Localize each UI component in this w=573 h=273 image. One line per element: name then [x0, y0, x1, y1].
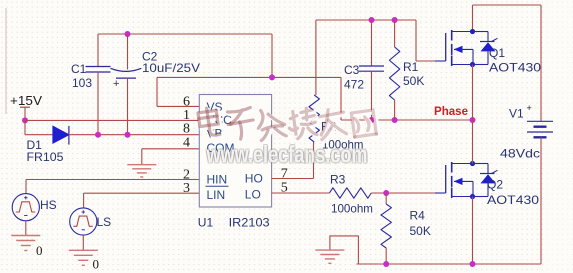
ground COM [127, 165, 156, 177]
svg-text:U1: U1 [198, 216, 214, 230]
svg-text:Phase: Phase [434, 104, 468, 118]
svg-text:48Vdc: 48Vdc [500, 147, 540, 161]
wire top rail [98, 33, 272, 35]
wire R1 bottom lead [394, 100, 396, 120]
svg-text:C1: C1 [71, 62, 87, 76]
resistor R4 [381, 204, 391, 248]
junction C3 top [369, 17, 375, 23]
svg-text:V1: V1 [509, 107, 524, 121]
wire gate drop [415, 20, 417, 61]
wire pin 7 HO [272, 178, 314, 180]
wire R4 bottom lead [385, 248, 387, 264]
svg-text:+: + [527, 103, 532, 113]
wire R2 top lead [315, 20, 317, 95]
junction R4 bottom [383, 261, 389, 267]
wire down to VS line [271, 34, 273, 77]
svg-text:www.elecfans.com: www.elecfans.com [206, 141, 368, 168]
wire pin 2 HIN [26, 179, 199, 181]
wire C2 top lead [127, 34, 129, 70]
svg-text:+: + [113, 78, 119, 90]
svg-text:AOT430: AOT430 [489, 61, 541, 75]
wire down to LS [83, 193, 85, 208]
wire R1 top lead [394, 20, 396, 47]
svg-text:100ohm: 100ohm [331, 202, 373, 216]
svg-text:HIN: HIN [207, 173, 228, 187]
transistor Q2 AOT430 symbol [435, 161, 498, 199]
wire R4 top lead [385, 193, 387, 204]
junction C2 top [125, 31, 131, 37]
wire R3 to Q2 gate [371, 192, 435, 194]
wire Phase line [341, 119, 473, 121]
wire LS to ground [82, 235, 84, 250]
wire Q2 source down [472, 197, 474, 265]
junction C2 bottom [125, 132, 131, 138]
wire to Q1 gate [416, 60, 435, 62]
wire C1 top lead [97, 34, 99, 67]
wire COM ground stub [141, 149, 143, 165]
resistor R2 [309, 95, 319, 142]
power bar +15V [20, 106, 30, 108]
pin name LIN (with overbar) [206, 185, 229, 187]
wire D1 anode lead [25, 134, 53, 136]
wire pin 1 VCC line [25, 119, 199, 121]
wire VS riser [156, 77, 158, 106]
svg-text:LO: LO [245, 188, 261, 202]
wire bottom rail [357, 263, 542, 265]
svg-text:LS: LS [97, 215, 112, 229]
junction R1 top [392, 17, 398, 23]
pulse source HS [12, 194, 39, 221]
wire down to D1 anode [24, 120, 26, 134]
svg-text:HS: HS [40, 198, 57, 212]
wire pin 3 LIN [84, 192, 199, 194]
wire pin 6 stub [157, 105, 199, 107]
wire VS down to Phase [340, 77, 342, 120]
wire ground branch [330, 236, 359, 264]
wire Phase to Q2 drain [472, 120, 474, 164]
wire rail B (gate route) [316, 19, 416, 21]
op-amp U1 IR2103 (driver IC) [199, 95, 271, 208]
svg-text:8: 8 [183, 122, 190, 137]
resistor R1 [389, 47, 399, 100]
resistor R3 [329, 188, 371, 198]
junction R1 bottom on Phase [392, 117, 398, 123]
svg-text:C3: C3 [344, 63, 360, 77]
svg-text:50K: 50K [403, 74, 424, 88]
battery V1 48Vdc [527, 121, 553, 137]
svg-text:10uF/25V: 10uF/25V [142, 61, 200, 75]
ground power [315, 250, 344, 263]
svg-text:IR2103: IR2103 [229, 216, 270, 230]
wire battery top [540, 5, 542, 121]
wire C3 bottom lead [371, 71, 373, 120]
wire pin 4 COM [142, 148, 199, 150]
node Phase [470, 117, 476, 123]
wire battery bottom [540, 137, 542, 264]
watermark chinese characters (decorative) [198, 107, 378, 143]
capacitor C2 [111, 68, 142, 90]
wire pin 5 LO [272, 192, 330, 194]
svg-text:0: 0 [36, 243, 43, 258]
svg-text:3: 3 [183, 181, 190, 196]
svg-text:0: 0 [93, 257, 100, 272]
ground LS 0 [69, 250, 98, 265]
wire +15V stub [24, 107, 26, 120]
wire down to HS [25, 180, 27, 194]
transistor Q1 AOT430 symbol [435, 29, 498, 67]
svg-text:Q2: Q2 [487, 178, 503, 192]
svg-text:R1: R1 [403, 60, 419, 74]
pulse source LS [70, 208, 97, 235]
wire C1 bottom lead [97, 72, 99, 135]
wire R2 bottom lead [313, 142, 315, 179]
svg-text:103: 103 [72, 76, 92, 90]
wire pin 8 VB line [69, 134, 199, 136]
wire Q1 source to Phase [472, 65, 474, 121]
svg-text:FR105: FR105 [27, 150, 64, 164]
ground HS 0 [11, 236, 40, 251]
wire HS to ground [25, 221, 27, 236]
svg-text:472: 472 [344, 78, 364, 92]
capacitor C1 [86, 67, 111, 73]
wire drain rail top [473, 4, 542, 6]
junction Q2 source on rail [470, 261, 476, 267]
wire C3 top lead [371, 20, 373, 66]
junction VS/rail [269, 74, 275, 80]
svg-text:LIN: LIN [207, 188, 226, 202]
junction +15V/VCC [22, 117, 28, 123]
svg-text:Q1: Q1 [489, 46, 505, 60]
svg-text:R4: R4 [410, 209, 426, 223]
svg-text:HO: HO [245, 172, 263, 186]
svg-text:AOT430: AOT430 [487, 193, 539, 207]
junction R4 top [383, 190, 389, 196]
watermark www.elecfans.com (decorative) [205, 140, 369, 169]
svg-text:50K: 50K [410, 224, 431, 238]
junction C1 bottom [95, 132, 101, 138]
junction C3 bottom on Phase [369, 117, 375, 123]
wire VS horizontal [157, 76, 341, 78]
capacitor C3 [359, 66, 384, 71]
svg-text:4: 4 [183, 136, 190, 151]
wire C2 bottom lead [127, 78, 129, 135]
diode D1 FR105 [53, 126, 69, 145]
svg-text:+15V: +15V [10, 93, 42, 108]
svg-text:R3: R3 [330, 173, 346, 187]
wire Q1 drain up [472, 5, 474, 32]
